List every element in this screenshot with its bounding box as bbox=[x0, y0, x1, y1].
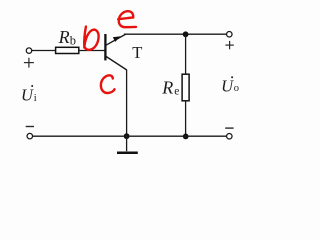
wire: Re bottom bbox=[185, 101, 187, 137]
red annotation b (base) bbox=[84, 27, 98, 50]
junction dot (collector / ground node) bbox=[124, 133, 130, 139]
resistor Rb bbox=[56, 47, 79, 53]
svg-text:o: o bbox=[234, 83, 239, 94]
svg-text:T: T bbox=[132, 43, 142, 62]
plus sign (input) bbox=[24, 58, 34, 68]
resistor Re bbox=[182, 74, 189, 101]
ground bbox=[117, 151, 138, 154]
transistor T collector line bbox=[105, 56, 126, 70]
svg-text:i: i bbox=[34, 93, 37, 104]
input terminal (bottom-left) bbox=[27, 133, 33, 139]
svg-text:U: U bbox=[221, 76, 234, 95]
junction dot (Re bottom) bbox=[183, 134, 189, 140]
minus sign (input) bbox=[26, 126, 34, 128]
svg-text:e: e bbox=[174, 86, 179, 98]
plus sign (output) bbox=[225, 41, 233, 49]
minus sign (output) bbox=[225, 127, 233, 129]
svg-text:U: U bbox=[21, 85, 34, 104]
bottom rail wire bbox=[33, 135, 227, 137]
transistor T base bar bbox=[104, 34, 106, 60]
wire: collector vertical bbox=[126, 70, 128, 136]
output terminal (top-right) bbox=[227, 31, 233, 37]
red annotation e (emitter) bbox=[118, 11, 136, 27]
red annotation c (collector) bbox=[101, 75, 115, 93]
svg-text:b: b bbox=[70, 33, 76, 47]
wire: Re top bbox=[185, 34, 187, 74]
wire: Rb to base bbox=[79, 50, 105, 52]
transistor T emitter arrow bbox=[113, 36, 121, 42]
top rail wire bbox=[124, 33, 226, 35]
junction dot (emitter node / Re top) bbox=[183, 31, 189, 37]
label Uo bbox=[221, 76, 239, 95]
label Ui bbox=[21, 85, 37, 104]
svg-text:R: R bbox=[161, 78, 173, 98]
svg-text:R: R bbox=[58, 27, 70, 47]
wire: input terminal to Rb bbox=[32, 50, 56, 52]
transistor T emitter line bbox=[106, 34, 126, 45]
output terminal (bottom-right) bbox=[227, 133, 233, 139]
input terminal (top-left) bbox=[26, 48, 32, 54]
ground stub bbox=[126, 136, 128, 151]
